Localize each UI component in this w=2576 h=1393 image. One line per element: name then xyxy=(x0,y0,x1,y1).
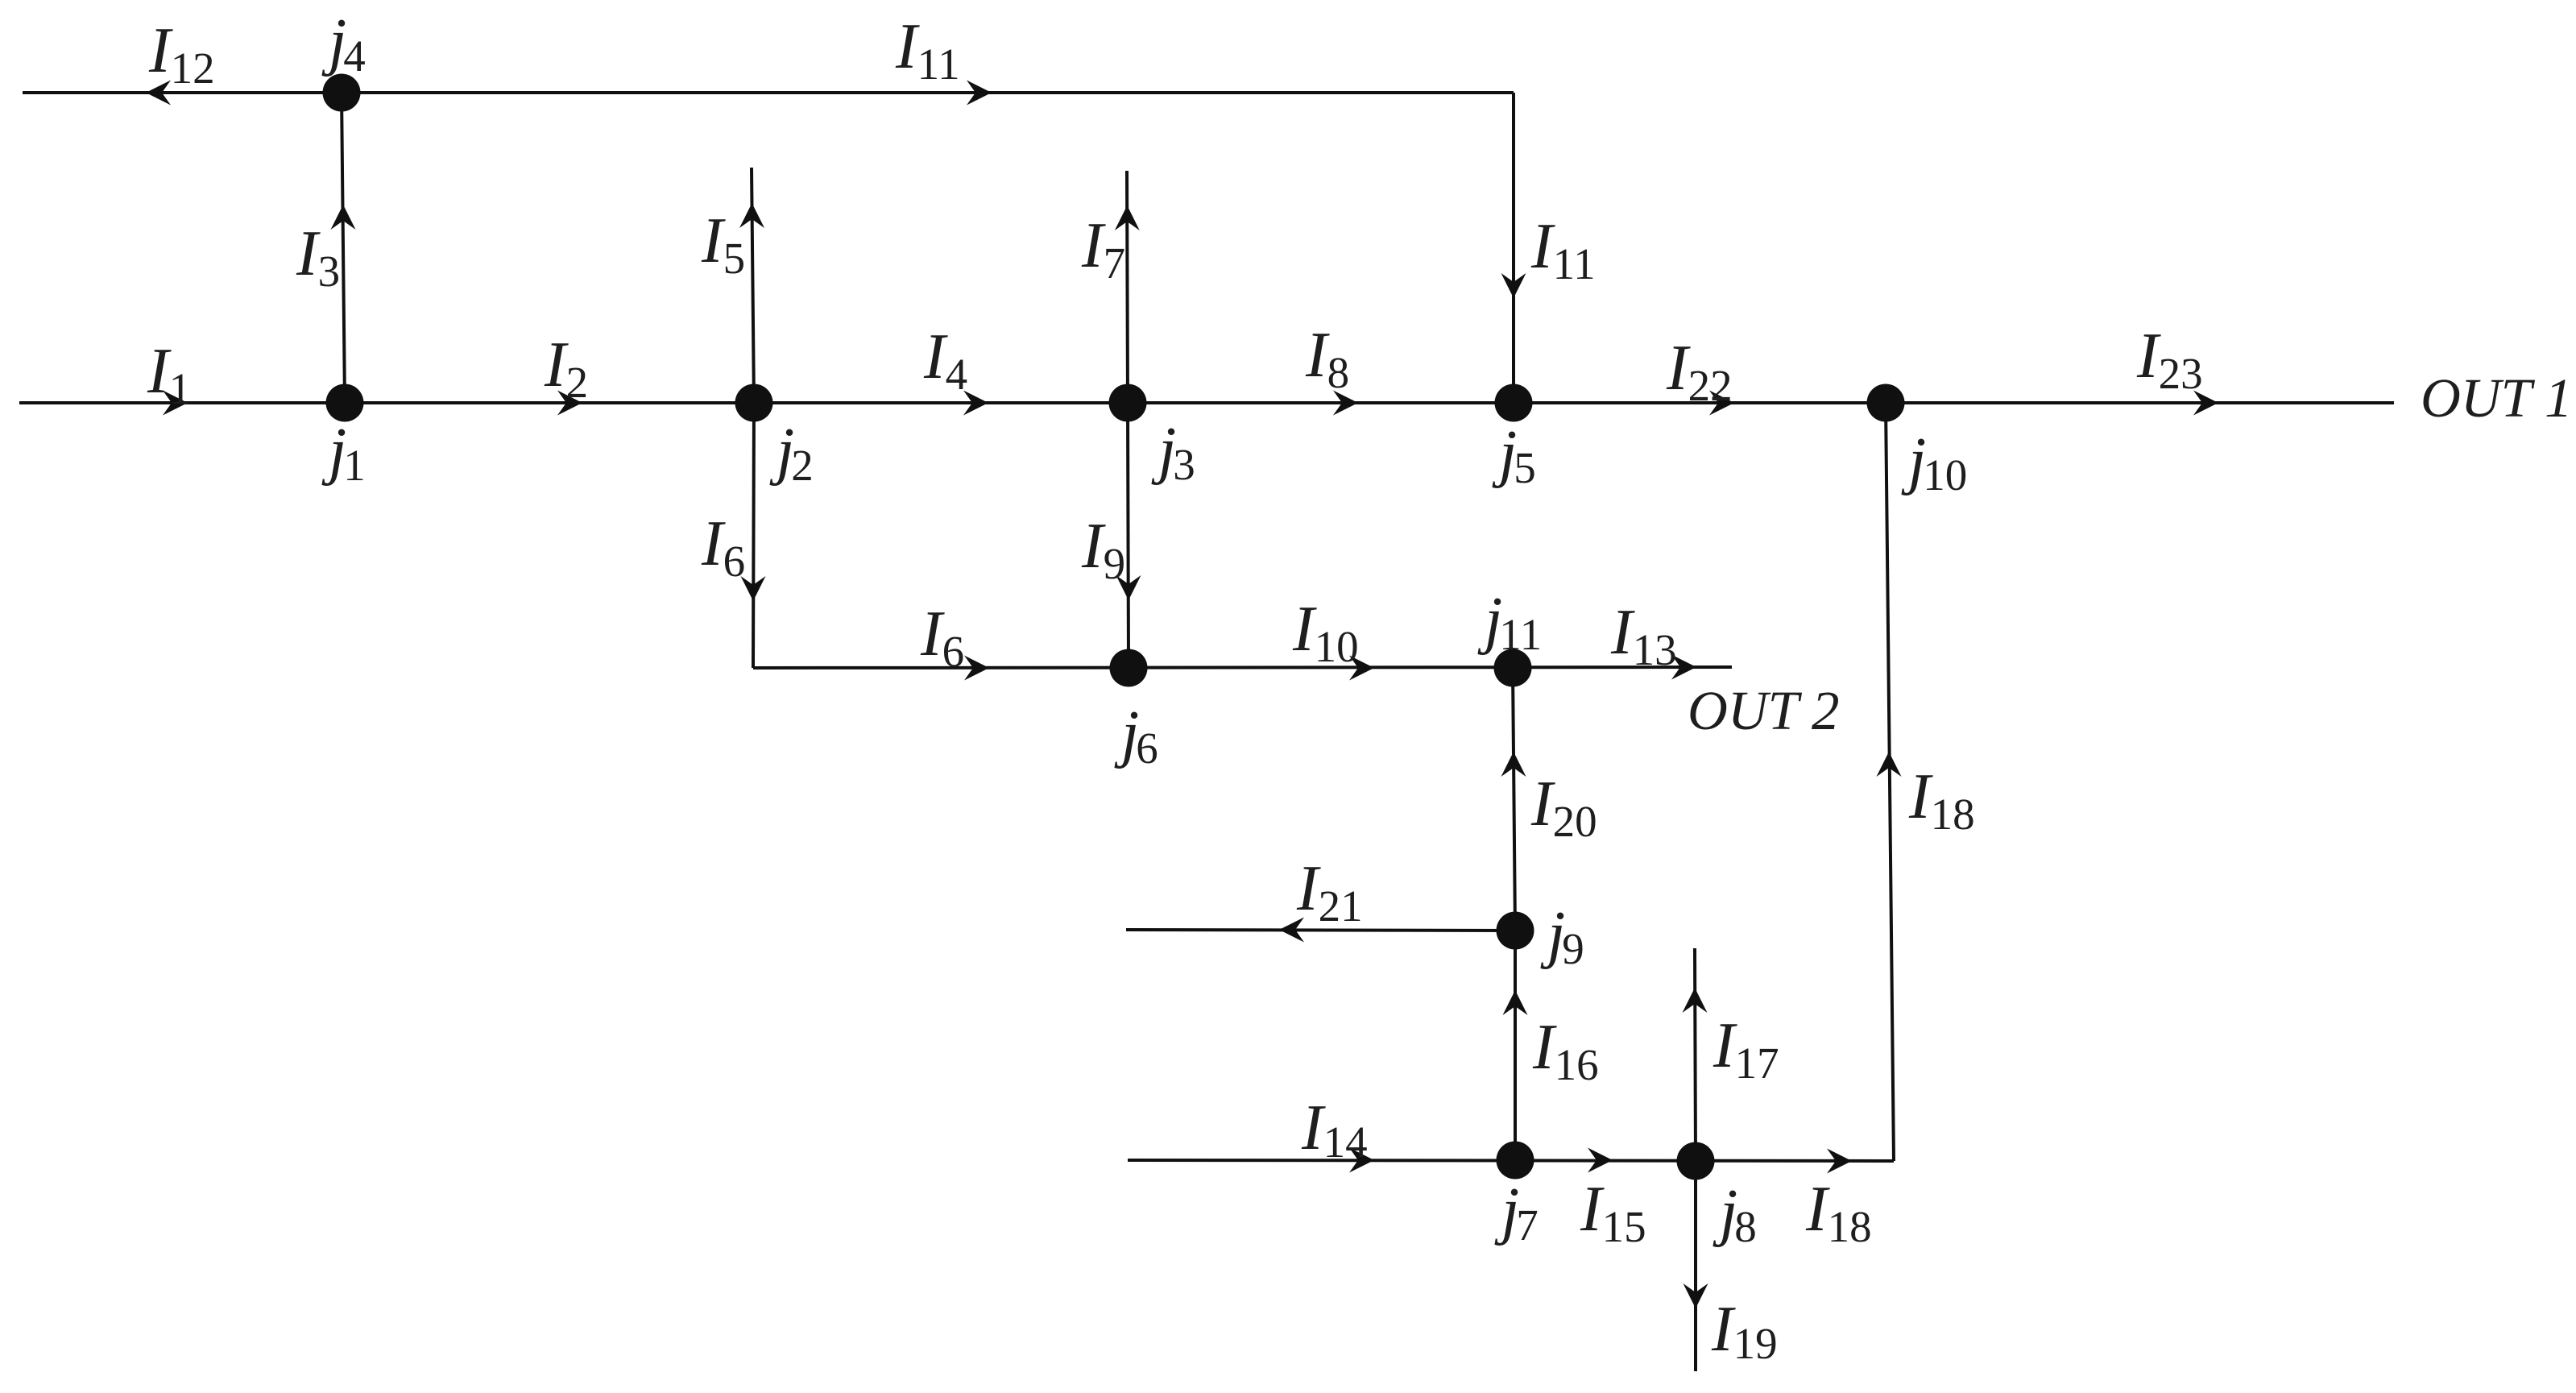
svg-text:I11: I11 xyxy=(1530,211,1596,288)
svg-text:j1: j1 xyxy=(321,416,366,490)
wire I19 stub below j8 xyxy=(1694,1161,1697,1371)
svg-text:I6: I6 xyxy=(920,599,964,676)
svg-text:I3: I3 xyxy=(296,218,340,296)
arrow I21 left xyxy=(1279,918,1304,943)
svg-text:I21: I21 xyxy=(1296,853,1363,931)
svg-text:I11: I11 xyxy=(895,11,960,89)
svg-text:j3: j3 xyxy=(1151,415,1195,489)
arrow I8 right xyxy=(1333,391,1358,416)
node j7 xyxy=(1497,1142,1534,1179)
svg-text:I14: I14 xyxy=(1301,1092,1368,1167)
svg-text:I16: I16 xyxy=(1532,1012,1599,1089)
node j9 xyxy=(1497,912,1534,950)
wire j2 down to second line xyxy=(753,403,754,668)
arrow I23 right xyxy=(2193,391,2218,416)
svg-text:I12: I12 xyxy=(148,15,215,93)
svg-text:I13: I13 xyxy=(1610,597,1677,674)
arrow I19 down xyxy=(1684,1283,1708,1308)
node j2 xyxy=(735,384,773,422)
wire I11 vertical corner to j5 xyxy=(1512,93,1515,403)
svg-text:j8: j8 xyxy=(1713,1177,1757,1251)
wire corner up to j10 xyxy=(1886,403,1894,1161)
svg-text:I6: I6 xyxy=(701,508,745,586)
arrow I16 up xyxy=(1503,990,1528,1015)
wire I17 stub above j8 xyxy=(1695,948,1696,1161)
arrow I10 right xyxy=(1349,656,1374,681)
arrow I9 down from j3 xyxy=(1116,575,1141,600)
svg-text:j10: j10 xyxy=(1901,425,1967,500)
wire j1 to j4 vertical xyxy=(342,93,345,403)
arrow I2 right xyxy=(557,391,582,416)
wire bottom line I14 to corner xyxy=(1128,1160,1894,1161)
svg-text:j9: j9 xyxy=(1540,899,1584,973)
wire main line IN to OUT 1 xyxy=(19,401,2394,404)
svg-text:I2: I2 xyxy=(544,330,588,407)
arrow I1 right xyxy=(163,391,188,416)
arrow I5 up xyxy=(739,203,764,228)
wire I7 stub above j3 xyxy=(1127,171,1128,403)
svg-text:I8: I8 xyxy=(1305,320,1349,397)
node j11 xyxy=(1494,649,1532,687)
svg-text:I19: I19 xyxy=(1711,1294,1778,1368)
arrow I4 right xyxy=(963,391,988,416)
svg-text:I18: I18 xyxy=(1908,761,1975,839)
node j4 xyxy=(323,74,361,112)
wire j3 down to j6 xyxy=(1128,403,1129,668)
arrow I6 down from j2 xyxy=(741,576,766,601)
wire second line j2 corner to OUT 2 xyxy=(753,667,1732,668)
wire top run j4 to corner xyxy=(23,91,1514,94)
wire j9 down to j7 xyxy=(1514,931,1517,1160)
wire I5 stub above j2 xyxy=(752,168,754,403)
svg-text:I17: I17 xyxy=(1713,1010,1779,1088)
arrow I12 left xyxy=(146,81,171,106)
arrow I6 right on second line xyxy=(964,656,989,681)
svg-text:j11: j11 xyxy=(1477,585,1542,659)
arrow I11 right on top run xyxy=(967,81,992,106)
svg-text:OUT 2: OUT 2 xyxy=(1688,680,1840,741)
svg-text:I1: I1 xyxy=(147,336,191,413)
node j8 xyxy=(1677,1142,1715,1180)
svg-text:j2: j2 xyxy=(769,416,814,490)
arrow I22 right xyxy=(1709,391,1734,416)
node j5 xyxy=(1495,384,1533,422)
node j6 xyxy=(1110,649,1148,687)
arrow I18 up to j10 xyxy=(1877,752,1902,777)
arrow I13 right xyxy=(1671,655,1696,680)
svg-text:j4: j4 xyxy=(321,6,366,81)
svg-text:I18: I18 xyxy=(1805,1174,1872,1251)
wire I21 from j9 to left xyxy=(1126,930,1515,931)
svg-text:I5: I5 xyxy=(701,205,745,283)
arrow I18 right on bottom line xyxy=(1827,1149,1852,1174)
node j1 xyxy=(326,384,364,422)
wire j11 down to j9 xyxy=(1513,668,1515,931)
arrow I3 up xyxy=(331,205,356,230)
svg-text:OUT 1: OUT 1 xyxy=(2421,367,2573,429)
arrow I17 up xyxy=(1683,988,1708,1013)
svg-text:I10: I10 xyxy=(1292,594,1359,671)
svg-text:j7: j7 xyxy=(1494,1175,1539,1250)
svg-text:j5: j5 xyxy=(1492,418,1536,492)
node j10 xyxy=(1867,384,1905,422)
arrow I15 right xyxy=(1588,1148,1613,1173)
svg-text:I15: I15 xyxy=(1580,1174,1646,1251)
svg-text:j6: j6 xyxy=(1114,699,1158,773)
svg-text:I4: I4 xyxy=(923,321,967,399)
svg-text:I20: I20 xyxy=(1530,769,1597,846)
arrow I20 up xyxy=(1501,752,1526,777)
node j3 xyxy=(1109,384,1147,422)
svg-text:I23: I23 xyxy=(2136,321,2203,398)
arrow I14 right xyxy=(1349,1148,1374,1173)
svg-text:I7: I7 xyxy=(1081,210,1125,288)
arrow I7 up xyxy=(1115,205,1140,230)
svg-text:I9: I9 xyxy=(1081,511,1125,588)
svg-text:I22: I22 xyxy=(1666,333,1733,410)
arrow I11 down to j5 xyxy=(1501,273,1526,298)
